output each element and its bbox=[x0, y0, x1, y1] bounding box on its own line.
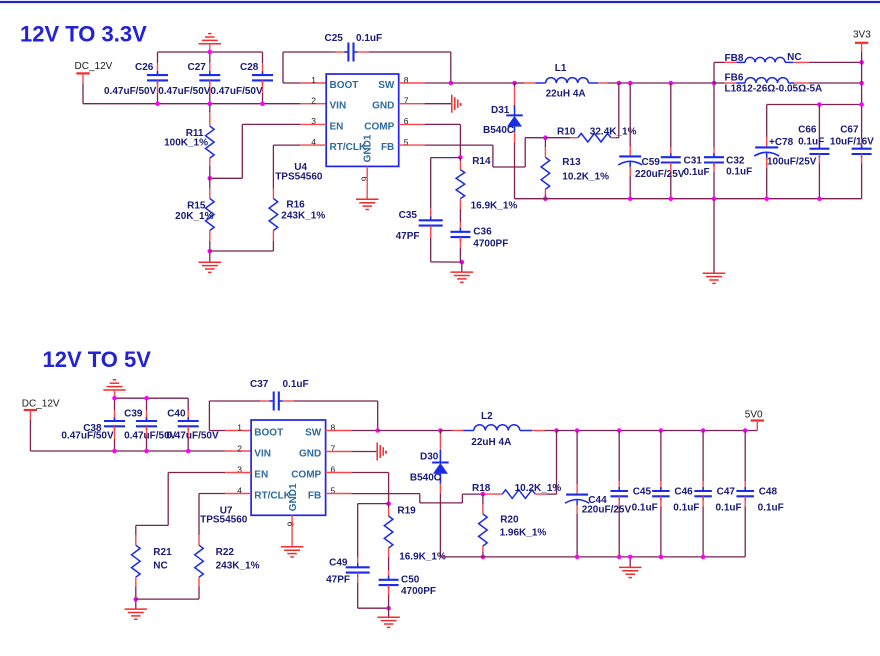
svg-text:COMP: COMP bbox=[364, 121, 394, 132]
svg-text:22uH 4A: 22uH 4A bbox=[546, 89, 586, 100]
svg-text:L1812-26Ω-0.05Ω-5A: L1812-26Ω-0.05Ω-5A bbox=[725, 84, 823, 95]
svg-text:4700PF: 4700PF bbox=[401, 586, 436, 597]
svg-text:GND: GND bbox=[299, 449, 321, 460]
svg-text:0.47uF/50V: 0.47uF/50V bbox=[166, 431, 219, 442]
svg-text:C45: C45 bbox=[633, 486, 652, 497]
svg-text:20K_1%: 20K_1% bbox=[175, 211, 213, 222]
svg-text:5V0: 5V0 bbox=[745, 410, 763, 421]
svg-text:NC: NC bbox=[153, 560, 167, 571]
svg-text:R21: R21 bbox=[153, 547, 172, 558]
svg-text:FB: FB bbox=[308, 491, 321, 502]
svg-text:L1: L1 bbox=[555, 63, 567, 74]
svg-text:0.1uF: 0.1uF bbox=[356, 33, 382, 44]
svg-text:C49: C49 bbox=[329, 558, 348, 569]
svg-text:+C78: +C78 bbox=[769, 137, 794, 148]
svg-text:C31: C31 bbox=[684, 156, 703, 167]
svg-text:16.9K_1%: 16.9K_1% bbox=[399, 552, 446, 563]
svg-text:R18: R18 bbox=[472, 483, 491, 494]
svg-text:220uF/25V: 220uF/25V bbox=[635, 169, 685, 180]
svg-text:C37: C37 bbox=[250, 379, 269, 390]
svg-text:FB: FB bbox=[381, 142, 394, 153]
svg-text:DC_12V: DC_12V bbox=[75, 61, 113, 72]
svg-text:C50: C50 bbox=[401, 575, 420, 586]
svg-text:C47: C47 bbox=[717, 486, 736, 497]
svg-text:C66: C66 bbox=[798, 125, 817, 136]
svg-text:DC_12V: DC_12V bbox=[22, 399, 60, 410]
svg-text:0.1uF: 0.1uF bbox=[758, 503, 784, 514]
svg-text:EN: EN bbox=[330, 121, 344, 132]
svg-text:B540C: B540C bbox=[483, 125, 514, 136]
svg-text:C32: C32 bbox=[726, 156, 745, 167]
svg-text:L2: L2 bbox=[481, 411, 493, 422]
svg-text:0.1uF: 0.1uF bbox=[684, 167, 710, 178]
svg-text:BOOT: BOOT bbox=[330, 80, 359, 91]
svg-text:0.47uF/50V: 0.47uF/50V bbox=[104, 86, 157, 97]
svg-text:100uF/25V: 100uF/25V bbox=[767, 157, 817, 168]
svg-text:R15: R15 bbox=[187, 201, 206, 212]
svg-text:C26: C26 bbox=[135, 62, 154, 73]
svg-text:220uF/25V: 220uF/25V bbox=[582, 505, 632, 516]
svg-text:12V TO 5V: 12V TO 5V bbox=[43, 347, 152, 372]
svg-text:D30: D30 bbox=[420, 452, 439, 463]
svg-text:BOOT: BOOT bbox=[254, 428, 283, 439]
svg-text:R19: R19 bbox=[397, 506, 416, 517]
svg-text:9: 9 bbox=[286, 522, 296, 527]
svg-text:3V3: 3V3 bbox=[853, 30, 871, 41]
svg-text:1.96K_1%: 1.96K_1% bbox=[500, 527, 547, 538]
svg-text:243K_1%: 243K_1% bbox=[216, 560, 260, 571]
svg-text:2: 2 bbox=[311, 96, 316, 106]
svg-text:C27: C27 bbox=[188, 62, 207, 73]
svg-text:VIN: VIN bbox=[254, 449, 271, 460]
svg-text:EN: EN bbox=[254, 470, 268, 481]
svg-text:0.1uF: 0.1uF bbox=[798, 136, 824, 147]
svg-text:TPS54560: TPS54560 bbox=[275, 171, 323, 182]
svg-text:SW: SW bbox=[378, 80, 395, 91]
svg-text:R16: R16 bbox=[286, 200, 305, 211]
svg-text:NC: NC bbox=[787, 52, 801, 63]
svg-text:0.47uF/50V: 0.47uF/50V bbox=[61, 431, 114, 442]
svg-text:C40: C40 bbox=[167, 409, 186, 420]
svg-text:4700PF: 4700PF bbox=[473, 239, 508, 250]
svg-text:D31: D31 bbox=[491, 105, 510, 116]
svg-text:10uF/16V: 10uF/16V bbox=[830, 136, 874, 147]
svg-text:SW: SW bbox=[305, 428, 322, 439]
svg-text:10.2K_1%: 10.2K_1% bbox=[562, 172, 609, 183]
svg-text:VIN: VIN bbox=[330, 101, 347, 112]
svg-text:16.9K_1%: 16.9K_1% bbox=[471, 200, 518, 211]
svg-text:47PF: 47PF bbox=[396, 231, 420, 242]
svg-text:1: 1 bbox=[237, 422, 242, 432]
svg-text:C35: C35 bbox=[399, 210, 418, 221]
svg-text:0.47uF/50V: 0.47uF/50V bbox=[158, 86, 211, 97]
svg-text:1: 1 bbox=[311, 75, 316, 85]
svg-text:COMP: COMP bbox=[291, 470, 321, 481]
svg-text:C36: C36 bbox=[473, 226, 492, 237]
svg-text:R14: R14 bbox=[472, 156, 491, 167]
svg-text:2: 2 bbox=[237, 443, 242, 453]
svg-text:0.1uF: 0.1uF bbox=[283, 379, 309, 390]
svg-text:C46: C46 bbox=[674, 486, 693, 497]
svg-text:0.47uF/50V: 0.47uF/50V bbox=[210, 86, 263, 97]
svg-text:GND1: GND1 bbox=[363, 134, 374, 162]
svg-text:R13: R13 bbox=[562, 157, 581, 168]
svg-text:22uH 4A: 22uH 4A bbox=[471, 437, 511, 448]
svg-text:47PF: 47PF bbox=[326, 575, 350, 586]
svg-text:10.2K_1%: 10.2K_1% bbox=[515, 483, 562, 494]
svg-text:243K_1%: 243K_1% bbox=[281, 211, 325, 222]
svg-text:0.1uF: 0.1uF bbox=[673, 503, 699, 514]
svg-text:R10: R10 bbox=[557, 126, 576, 137]
svg-text:C67: C67 bbox=[840, 125, 859, 136]
svg-text:C28: C28 bbox=[240, 62, 259, 73]
svg-text:C39: C39 bbox=[124, 409, 143, 420]
svg-text:B540C: B540C bbox=[410, 472, 441, 483]
svg-text:12V TO 3.3V: 12V TO 3.3V bbox=[20, 22, 147, 47]
svg-text:R20: R20 bbox=[500, 515, 519, 526]
svg-text:C48: C48 bbox=[759, 486, 778, 497]
svg-text:FB8: FB8 bbox=[725, 53, 744, 64]
svg-text:0.1uF: 0.1uF bbox=[632, 503, 658, 514]
svg-text:R22: R22 bbox=[216, 547, 235, 558]
svg-text:GND: GND bbox=[372, 101, 394, 112]
svg-text:0.1uF: 0.1uF bbox=[716, 503, 742, 514]
svg-text:0.1uF: 0.1uF bbox=[726, 167, 752, 178]
svg-text:100K_1%: 100K_1% bbox=[164, 138, 208, 149]
svg-text:TPS54560: TPS54560 bbox=[200, 514, 248, 525]
svg-text:FB6: FB6 bbox=[725, 73, 744, 84]
svg-text:C25: C25 bbox=[325, 33, 344, 44]
svg-text:GND1: GND1 bbox=[288, 483, 299, 511]
svg-text:RT/CLK: RT/CLK bbox=[254, 491, 291, 502]
svg-text:RT/CLK: RT/CLK bbox=[330, 142, 367, 153]
svg-text:C59: C59 bbox=[642, 157, 661, 168]
